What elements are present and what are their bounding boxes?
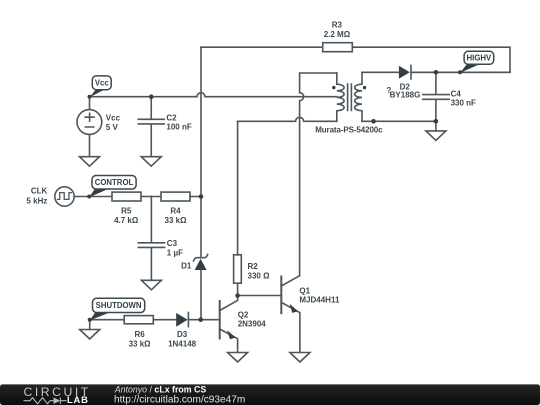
svg-text:Vcc: Vcc	[106, 114, 121, 123]
svg-text:4.7 kΩ: 4.7 kΩ	[114, 216, 139, 225]
svg-text:LAB: LAB	[67, 394, 89, 405]
svg-text:D1: D1	[181, 262, 192, 271]
svg-text:R6: R6	[134, 330, 145, 339]
svg-text:D3: D3	[177, 330, 188, 339]
svg-text:5 kHz: 5 kHz	[26, 196, 47, 205]
svg-text:330 Ω: 330 Ω	[248, 271, 271, 280]
svg-text:Antonyo / cLx from CS: Antonyo / cLx from CS	[114, 384, 207, 394]
svg-text:2N3904: 2N3904	[238, 320, 267, 329]
svg-text:BY188G: BY188G	[390, 90, 421, 99]
svg-text:1N4148: 1N4148	[168, 339, 197, 348]
svg-text:C3: C3	[167, 239, 178, 248]
svg-text:R3: R3	[332, 20, 343, 29]
svg-text:33 kΩ: 33 kΩ	[129, 339, 152, 348]
svg-text:Vcc: Vcc	[95, 79, 110, 88]
svg-text:2.2 MΩ: 2.2 MΩ	[324, 30, 351, 39]
svg-text:Q1: Q1	[299, 286, 310, 295]
svg-text:SHUTDOWN: SHUTDOWN	[96, 301, 142, 310]
svg-text:Murata-PS-54200c: Murata-PS-54200c	[315, 126, 383, 135]
svg-text:R2: R2	[248, 262, 259, 271]
svg-text:33 kΩ: 33 kΩ	[165, 216, 188, 225]
svg-text:330 nF: 330 nF	[451, 99, 476, 108]
svg-text:C2: C2	[166, 113, 177, 122]
svg-text:HIGHV: HIGHV	[467, 54, 492, 63]
svg-text:100 nF: 100 nF	[166, 123, 191, 132]
svg-text:R4: R4	[170, 206, 181, 215]
svg-text:MJD44H11: MJD44H11	[299, 296, 340, 305]
svg-text:CLK: CLK	[31, 187, 48, 196]
svg-text:1 µF: 1 µF	[167, 248, 183, 257]
svg-text:http://circuitlab.com/c93e47m: http://circuitlab.com/c93e47m	[114, 394, 245, 405]
svg-text:5 V: 5 V	[106, 123, 119, 132]
svg-text:CONTROL: CONTROL	[95, 178, 134, 187]
svg-text:C4: C4	[451, 89, 462, 98]
svg-text:R5: R5	[121, 206, 132, 215]
svg-text:Q2: Q2	[238, 311, 249, 320]
